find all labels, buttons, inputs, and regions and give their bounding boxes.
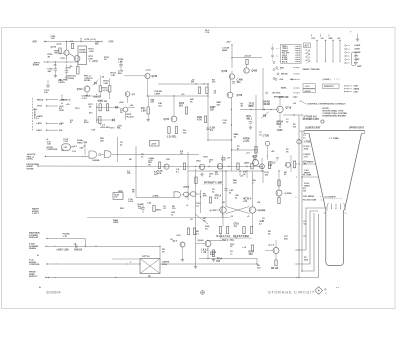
- wire row y=258.5: [199, 258, 257, 260]
- wire vertical x=188: [187, 152, 189, 196]
- svg-text:-TR B: -TR B: [37, 106, 43, 108]
- label E.SIG arrow: [55, 246, 56, 247]
- wire Q726 emitter: [147, 79, 149, 96]
- wire diagonal to Q840: [195, 214, 208, 224]
- matrix vertical 4: [339, 40, 341, 62]
- resistor R842: [293, 161, 295, 168]
- wire Q840 leads: [207, 247, 209, 259]
- arrow tap y197: [296, 196, 297, 197]
- svg-text:+5.2V: +5.2V: [97, 100, 103, 102]
- wire staircase A: [296, 208, 326, 250]
- CRT tube left wall: [326, 210, 344, 266]
- wire diode row 2: [97, 119, 113, 121]
- svg-text:MOS: MOS: [162, 264, 168, 266]
- svg-text:+1V: +1V: [268, 165, 273, 167]
- resistor R845: [209, 197, 211, 203]
- node +15V top feed: [231, 44, 233, 45]
- wire Q716 base row: [240, 109, 277, 111]
- wire diode row out: [128, 106, 134, 108]
- svg-text:CHA: CHA: [354, 90, 359, 93]
- svg-text:T0A: T0A: [249, 253, 254, 256]
- svg-text:LEVEL: LEVEL: [79, 52, 87, 54]
- resistor R861: [187, 228, 189, 235]
- transistor Q733: [125, 92, 130, 97]
- svg-text:Q.L.8: Q.L.8: [269, 244, 275, 246]
- svg-text:+2.2u: +2.2u: [145, 69, 151, 71]
- resistor R841: [268, 162, 270, 169]
- lower contact 2 SAWA: [344, 88, 345, 89]
- box ALIGN: [303, 89, 315, 93]
- wire row y=246.3: [45, 246, 46, 247]
- svg-text:CONDITION: CONDITION: [47, 149, 58, 151]
- svg-text:MESH: MESH: [304, 172, 310, 174]
- svg-text:R865: R865: [222, 50, 228, 52]
- wire vertical x=263: [262, 171, 264, 183]
- resistor R859: [251, 245, 253, 251]
- svg-text:1M: 1M: [303, 190, 306, 192]
- wire row1 branch up: [61, 95, 63, 100]
- wire mesh tap y=164: [302, 163, 316, 165]
- svg-text:OPT'02: OPT'02: [142, 256, 150, 258]
- wire ff left leg: [222, 213, 224, 226]
- svg-text:INTENSITY LIMIT: INTENSITY LIMIT: [204, 183, 223, 185]
- svg-text:+15V: +15V: [226, 42, 232, 44]
- contact C705: [265, 141, 269, 145]
- svg-text:+TRIG: +TRIG: [68, 78, 75, 80]
- svg-text:+15 V: +15 V: [305, 86, 311, 88]
- transistor Q846: [260, 164, 265, 169]
- svg-text:REA: REA: [277, 123, 282, 126]
- svg-text:Q474: Q474: [164, 118, 170, 121]
- svg-text:+50V: +50V: [119, 102, 124, 104]
- wire row y=277.5: [45, 277, 46, 278]
- boxed label +50V: [150, 141, 160, 147]
- wire row y=264 right part: [160, 263, 257, 265]
- svg-text:T.1K: T.1K: [51, 38, 56, 40]
- svg-text:1.8K: 1.8K: [141, 111, 146, 113]
- gate block U830 left box: [113, 193, 123, 200]
- extra funnel neck ticks: [324, 212, 326, 214]
- wire small column x=85: [84, 141, 86, 155]
- wire vertical x=257: [256, 259, 258, 265]
- resistor R868: [246, 60, 248, 65]
- svg-text:1N4152: 1N4152: [74, 249, 83, 252]
- center dots: [231, 109, 232, 110]
- svg-text:1.TO: 1.TO: [304, 156, 309, 158]
- svg-text:Q.LPC: Q.LPC: [210, 210, 217, 212]
- svg-text:DR.AB: DR.AB: [271, 267, 279, 270]
- label collimation dashed: [323, 198, 343, 200]
- title diamond symbol: [315, 287, 323, 295]
- wire Q716 emitter right: [283, 114, 302, 116]
- wire top line y=171: [188, 170, 263, 172]
- svg-text:100K: 100K: [59, 110, 64, 112]
- svg-text:10K: 10K: [265, 174, 269, 176]
- box +15V: [303, 84, 315, 89]
- arrow on optics row: [127, 263, 128, 264]
- svg-text:+(7.6): +(7.6): [102, 90, 108, 92]
- CRT funnel corner ticks: [303, 131, 305, 134]
- svg-text:CR.8.B T.8.88A: CR.8.B T.8.88A: [233, 235, 249, 238]
- svg-text:NEAR: NEAR: [264, 103, 271, 106]
- resistor R471: [168, 127, 170, 134]
- ground top right: [357, 38, 359, 40]
- wire bus to funnel top: [299, 130, 304, 132]
- ground under Q834: [182, 258, 184, 260]
- svg-text:U8.6: U8.6: [196, 160, 201, 162]
- resistor R731: [99, 104, 101, 111]
- resistor R716: [99, 86, 101, 92]
- wire dashed y=217.5: [87, 217, 230, 219]
- svg-text:1.47: 1.47: [64, 146, 68, 149]
- resistor R858: [212, 250, 214, 257]
- wire vertical feed x=96.8: [96, 103, 98, 123]
- arrow tap y164: [296, 163, 297, 164]
- svg-text:SAWA: SAWA: [354, 88, 360, 91]
- wire vertical x=117.5: [117, 137, 119, 162]
- ground under R858: [213, 258, 215, 260]
- resistor R849 under Q848: [278, 198, 280, 204]
- resistor R477: [206, 87, 208, 94]
- svg-text:100K: 100K: [304, 148, 309, 150]
- transistor Q844: [286, 162, 291, 167]
- svg-text:U830C: U830C: [155, 210, 162, 212]
- wire stub bottom b: [246, 171, 248, 178]
- svg-text:Q480: Q480: [252, 70, 258, 73]
- svg-text:SEL: SEL: [118, 73, 123, 75]
- transistor Q828: [164, 164, 169, 169]
- wire top dot row: [294, 96, 295, 97]
- svg-text:INTENSITY: INTENSITY: [324, 86, 335, 88]
- svg-text:+(7.5): +(7.5): [92, 61, 98, 63]
- wire staircase B: [296, 211, 318, 264]
- svg-text:J.OO T: J.OO T: [32, 213, 40, 215]
- wire vertical x=231.5: [231, 98, 233, 171]
- svg-text:+A.25: +A.25: [56, 42, 62, 45]
- svg-text:+GATE: +GATE: [354, 44, 361, 47]
- wire corner down: [84, 239, 86, 247]
- svg-text:STORAGE CIRCUIT: STORAGE CIRCUIT: [268, 289, 315, 294]
- gate cluster wires: [187, 196, 189, 200]
- svg-text:+1V: +1V: [243, 201, 248, 203]
- svg-text:603/604: 603/604: [47, 291, 61, 295]
- svg-text:1M: 1M: [293, 126, 296, 128]
- svg-text:INTERFACING BOARD: INTERFACING BOARD: [323, 114, 347, 117]
- row arrows bottom: [55, 277, 56, 278]
- wire vertical x=263 from matrix: [262, 68, 264, 110]
- dots bottom rows: [139, 263, 140, 264]
- transistor Q716: [277, 106, 283, 112]
- resistor R712: [77, 67, 79, 75]
- wire ff left drop: [225, 171, 227, 207]
- gate generator oval U810: [62, 144, 71, 151]
- switch contact 5 +SWP: [345, 59, 347, 61]
- svg-text:10n: 10n: [237, 82, 242, 84]
- matrix vertical arrowheads: [316, 61, 317, 62]
- wire cap to Q726: [124, 75, 145, 77]
- wire right bus 1: [298, 115, 300, 278]
- svg-text:STORED 8.2KV: STORED 8.2KV: [303, 119, 320, 121]
- svg-text:GND: GND: [329, 38, 334, 40]
- dot row q714: [86, 95, 87, 96]
- crosshair symbol: [201, 291, 205, 295]
- resistor ff R853: [219, 227, 221, 234]
- resistor ff R854: [226, 227, 228, 234]
- svg-text:4.7K: 4.7K: [149, 159, 154, 162]
- svg-text:1.2K: 1.2K: [111, 75, 116, 77]
- svg-text:Q726: Q726: [152, 76, 158, 78]
- ground mid row 1: [201, 173, 203, 175]
- svg-text:FL GUN: FL GUN: [303, 175, 312, 177]
- resistor R484: [185, 107, 187, 114]
- svg-text:LRAT: LRAT: [37, 129, 43, 132]
- svg-text:R.L.8.A T.1.K: R.L.8.A T.1.K: [217, 235, 231, 238]
- svg-text:1.2K: 1.2K: [91, 130, 96, 132]
- resistor R862: [193, 228, 195, 235]
- lower contact 1 GND: [344, 85, 345, 86]
- wire center row y=84: [158, 83, 209, 85]
- flood gun logic X box: [140, 259, 160, 274]
- svg-text:+150: +150: [89, 51, 95, 53]
- ground below C706: [66, 76, 68, 78]
- wire gate out: [182, 194, 184, 196]
- svg-text:LRT VW A: LRT VW A: [272, 92, 281, 95]
- svg-text:47K: 47K: [203, 195, 207, 198]
- svg-text:ALT: ALT: [305, 44, 310, 47]
- capacitor C843: [141, 207, 144, 209]
- wire right bus 2: [301, 131, 303, 271]
- svg-text:LATR: LATR: [37, 122, 43, 125]
- wire mid row vertical x=262: [261, 158, 263, 172]
- svg-text:Q714: Q714: [77, 88, 83, 91]
- CRT funnel right slant: [345, 134, 362, 211]
- svg-text:SWEEP / TRIGGER: SWEEP / TRIGGER: [303, 69, 321, 71]
- resistor R860: [275, 260, 277, 266]
- resistor R839: [251, 163, 253, 169]
- capacitor C226: [224, 188, 227, 190]
- svg-text:Q.LAB: Q.LAB: [259, 209, 266, 212]
- svg-text:+GATE: +GATE: [59, 99, 66, 102]
- svg-text:+75V: +75V: [108, 42, 114, 44]
- dots mid row: [195, 166, 196, 167]
- wire staircase D: [299, 214, 319, 278]
- svg-text:1.TO8: 1.TO8: [263, 135, 270, 137]
- ALT box: [304, 43, 311, 48]
- arrow tap y177: [296, 176, 297, 177]
- svg-text:CONTROL / INTERFACING CONTACT: CONTROL / INTERFACING CONTACT: [307, 103, 346, 106]
- resistor R733: [99, 117, 101, 124]
- ground R73: [250, 126, 252, 128]
- CRT funnel left slant: [309, 134, 326, 211]
- wire +75V bus: [45, 41, 102, 43]
- diode CR716: [261, 112, 269, 119]
- wire gate output: [112, 153, 199, 155]
- wire Q704 to Q710: [69, 54, 74, 57]
- wire center row y=96: [148, 95, 209, 97]
- row lrtvwa: [266, 92, 268, 94]
- wire link y=150 between columns: [232, 149, 257, 151]
- resistor R834: [183, 163, 185, 170]
- resistor R482: [147, 107, 149, 114]
- svg-text:Q8.40: Q8.40: [198, 239, 205, 242]
- transistor Q731: [123, 107, 128, 112]
- svg-text:+GATE: +GATE: [152, 195, 159, 198]
- transistor Q854: [273, 248, 279, 254]
- gate output bubble: [99, 154, 101, 156]
- wire ff cross: [226, 207, 250, 214]
- transistor Q834: [180, 242, 185, 247]
- svg-text:MO.1: MO.1: [247, 118, 253, 120]
- svg-text:Q476: Q476: [237, 94, 243, 97]
- switch contact 4 OPT: [345, 55, 347, 57]
- svg-text:LEVEL: LEVEL: [84, 80, 91, 82]
- ff left stub: [213, 209, 220, 211]
- wire ff right drop: [252, 171, 254, 207]
- svg-text:2W: 2W: [191, 82, 194, 84]
- transistor Q710: [74, 56, 80, 62]
- node Q710 output arrow: [89, 60, 90, 61]
- svg-text:100: 100: [114, 197, 117, 199]
- contact circle on bus top: [321, 120, 324, 123]
- wire diode row 1: [97, 106, 116, 108]
- resistor R706: [59, 48, 61, 54]
- wire stub mid c: [187, 152, 189, 166]
- svg-text:UPPER GRAT: UPPER GRAT: [349, 127, 364, 130]
- switch contact 6 EXT: [345, 62, 347, 64]
- Q840 base stub: [196, 243, 206, 245]
- transistor Q836: [199, 164, 204, 169]
- svg-text:( GRAD ): ( GRAD ): [323, 78, 331, 81]
- svg-text:10K: 10K: [100, 140, 104, 142]
- svg-text:BRTVU NO: BRTVU NO: [274, 97, 284, 99]
- svg-text:1.TO8: 1.TO8: [304, 142, 311, 144]
- svg-text:SRA NO: SRA NO: [281, 73, 288, 76]
- matrix alt arrows: [307, 51, 310, 53]
- svg-text:+1.2V: +1.2V: [243, 141, 250, 143]
- svg-text:LEVEL: LEVEL: [59, 82, 66, 84]
- svg-text:70A: 70A: [216, 260, 221, 263]
- wire vertical x=291: [290, 155, 292, 172]
- svg-text:Q704: Q704: [51, 46, 57, 49]
- wire row y=264: [46, 263, 47, 264]
- svg-text:LEVEL: LEVEL: [27, 159, 34, 161]
- wire ff right leg: [252, 213, 254, 226]
- matrix side circles: [272, 48, 274, 50]
- matrix left dashed column: [272, 44, 274, 62]
- lower contact 3 CHA: [344, 91, 345, 92]
- resistor R732: [106, 104, 108, 111]
- svg-text:+SWP: +SWP: [354, 59, 360, 61]
- node +75V right arrow: [102, 41, 104, 43]
- wire short y=259 stub: [112, 258, 140, 260]
- svg-text:+ .00: + .00: [201, 252, 207, 254]
- wire staircase C: [302, 213, 314, 271]
- ff bottom link: [221, 237, 252, 239]
- wire vertical x=256: [255, 95, 257, 159]
- svg-text:Q470: Q470: [244, 162, 250, 165]
- resistor R708: [71, 44, 73, 49]
- pulse shaper oval 2: [191, 192, 197, 196]
- wire Q704 collector drop: [66, 42, 68, 51]
- wire vertical x=200.6: [200, 190, 202, 213]
- svg-text:+SAWP: +SAWP: [354, 51, 361, 54]
- svg-text:R: R: [325, 288, 327, 292]
- matrix extra dashes: [276, 48, 279, 50]
- svg-text:SWP: SWP: [357, 66, 362, 68]
- svg-text:1K: 1K: [89, 107, 92, 109]
- svg-text:-GATE: -GATE: [354, 48, 360, 51]
- resistor R718: [109, 86, 111, 93]
- resistor R486: [204, 116, 206, 123]
- connector tall box: [352, 52, 357, 66]
- transistor Q850 ff left: [220, 207, 226, 213]
- svg-text:Q716: Q716: [286, 108, 292, 110]
- row SRA: [276, 67, 278, 69]
- resistor ff R856: [250, 227, 252, 234]
- IC U710 box: [78, 46, 87, 65]
- svg-text:DISPLAY: DISPLAY: [29, 236, 39, 239]
- wire Q840 to ff leg: [208, 240, 221, 242]
- transistor Q838: [217, 164, 222, 169]
- svg-text:Q.DRA: Q.DRA: [285, 192, 292, 195]
- wire Q478 to Q476: [230, 79, 232, 92]
- svg-text:1.7 TUBE: 1.7 TUBE: [329, 138, 339, 140]
- resistor R847: [195, 177, 197, 184]
- capacitor C741: [74, 245, 76, 248]
- svg-text:STORE: STORE: [27, 168, 35, 170]
- switch contact 1 +GATE: [345, 45, 347, 47]
- matrix vertical 2: [325, 40, 327, 62]
- svg-text:22M: 22M: [304, 259, 308, 261]
- diode CR733: [113, 119, 115, 121]
- svg-text:+.08A C .77A: +.08A C .77A: [220, 239, 234, 242]
- svg-text:+1.4.5: +1.4.5: [72, 145, 77, 148]
- bus dots: [298, 163, 299, 164]
- svg-text:CONTROL: CONTROL: [29, 264, 40, 266]
- left bottom extra dots: [85, 246, 86, 247]
- wire flood tap y=177: [302, 176, 319, 178]
- resistor R475: [198, 87, 200, 94]
- svg-text:LIMIT: LIMIT: [155, 94, 161, 96]
- svg-text:NCR: NCR: [157, 173, 162, 175]
- svg-text:+50V: +50V: [151, 143, 157, 145]
- svg-text:TRACE: TRACE: [37, 98, 45, 101]
- matrix center contacts: [305, 49, 306, 50]
- svg-text:U830A: U830A: [183, 186, 190, 189]
- resistor R848: [278, 180, 280, 186]
- connector J100 dashed edge: [32, 98, 34, 132]
- svg-text:PANEL: PANEL: [29, 247, 37, 250]
- transistor Q726: [145, 73, 150, 78]
- wire vertical x=136: [135, 146, 137, 198]
- node +75V mid tick: [80, 39, 82, 42]
- svg-text:SIG: SIG: [59, 130, 63, 132]
- svg-text:MPS: MPS: [249, 106, 254, 108]
- pulse shaper oval 1: [184, 192, 190, 196]
- diode row junction dots: [115, 107, 116, 108]
- wire bus arrows: [296, 277, 297, 278]
- svg-text:1MEG: 1MEG: [304, 185, 310, 187]
- svg-text:+75V: +75V: [32, 42, 38, 44]
- wire x=160 drop to xbox: [159, 246, 161, 258]
- capacitor C713: [46, 84, 49, 86]
- svg-text:CE1 MESH: CE1 MESH: [303, 196, 315, 198]
- matrix left bracket box: [281, 45, 302, 64]
- wire vertical x=208: [207, 84, 209, 140]
- transistor Q852 ff right: [249, 207, 255, 213]
- svg-text:U820B: U820B: [93, 160, 100, 162]
- transistor Q848: [276, 190, 282, 196]
